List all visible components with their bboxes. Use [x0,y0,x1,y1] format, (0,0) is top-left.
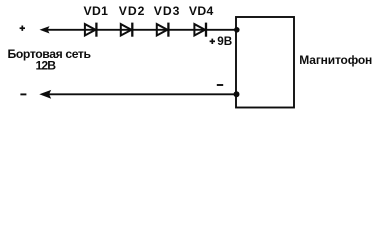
svg-text:VD1: VD1 [84,4,109,18]
box Магнитофон (tape recorder) [236,17,294,108]
diode VD3 [157,23,169,37]
wire top (from arrow to box) [44,29,237,31]
svg-text:Магнитофон: Магнитофон [299,53,372,67]
node - (minus terminal, onboard network) [20,93,26,95]
node + (plus terminal, onboard network) [20,26,25,31]
svg-text:9В: 9В [217,35,232,48]
wire bottom (from arrow to box) [44,93,236,95]
svg-text:VD4: VD4 [189,4,214,18]
node +9V label [210,35,233,48]
svg-text:VD3: VD3 [154,4,180,18]
arrow on bottom wire pointing left [39,90,51,99]
svg-text:VD2: VD2 [119,4,145,18]
diode VD4 [194,23,206,37]
junction dot bottom (wire to box) [234,91,240,97]
svg-text:12В: 12В [36,59,57,73]
diode VD1 [85,23,97,37]
junction dot top (wire to box) [234,27,240,33]
arrow on top wire pointing left [40,26,50,33]
diode VD2 [121,23,133,37]
node - (minus near box) [217,84,223,86]
